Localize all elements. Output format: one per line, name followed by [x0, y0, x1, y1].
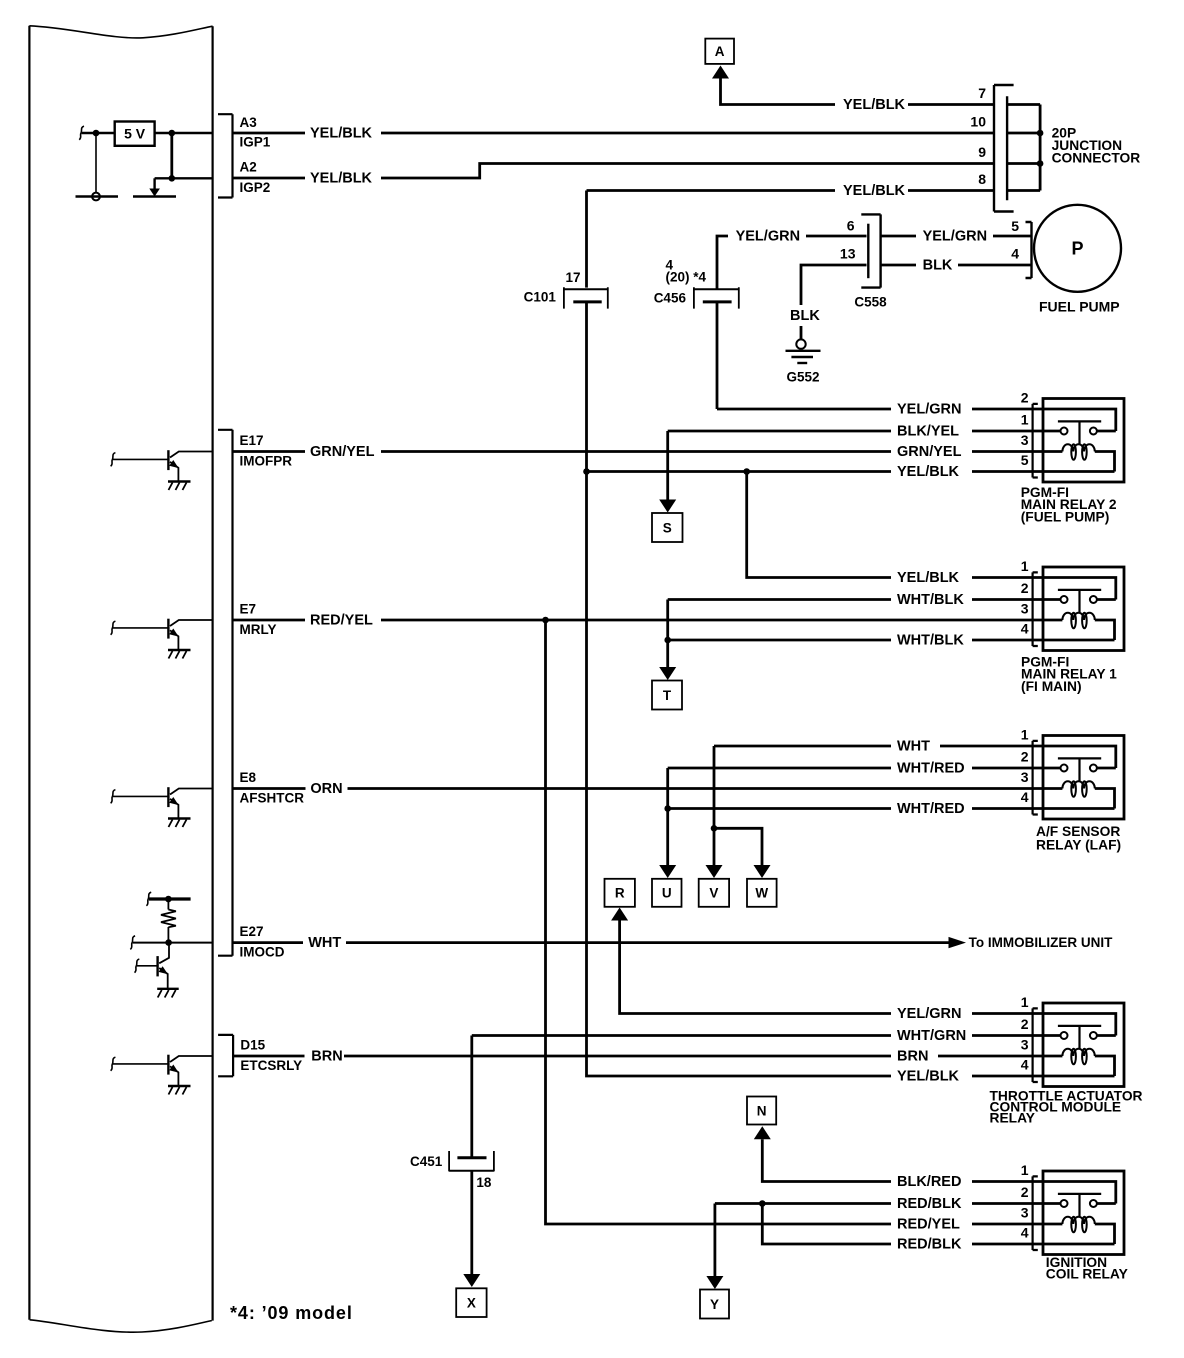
wire WHT/RED A/F relay pin 4: [668, 801, 1033, 817]
svg-text:BRN: BRN: [311, 1048, 342, 1064]
svg-text:T: T: [663, 688, 672, 703]
svg-text:(20) *4: (20) *4: [666, 270, 707, 285]
svg-text:D15: D15: [240, 1038, 265, 1053]
svg-text:5 V: 5 V: [124, 126, 146, 142]
wire WHT/GRN throttle relay pin 2 to C451/X: [472, 1028, 1033, 1158]
wire YEL/BLK to PGM-FI main relay 2 pin 5: [587, 464, 1034, 480]
connector bracket A3/A2: [218, 114, 233, 197]
connector bracket D15: [218, 1035, 233, 1076]
throttle actuator control module relay: [990, 994, 1143, 1126]
PGM-FI main relay 2: [1021, 390, 1124, 525]
svg-text:*4: ’09 model: *4: ’09 model: [230, 1303, 353, 1323]
wire BLK C558 to fuel pump pin 4: [881, 246, 1032, 274]
svg-text:1: 1: [1021, 412, 1029, 428]
svg-text:BRN: BRN: [897, 1048, 928, 1064]
svg-text:4: 4: [1021, 1057, 1029, 1073]
junction node RED/YEL branch: [542, 617, 549, 624]
svg-text:FUEL PUMP: FUEL PUMP: [1039, 299, 1120, 315]
svg-text:YEL/BLK: YEL/BLK: [897, 570, 960, 586]
svg-text:RELAY (LAF): RELAY (LAF): [1036, 838, 1121, 853]
wire resistor to E27 row: [167, 927, 169, 943]
svg-text:COIL RELAY: COIL RELAY: [1046, 1267, 1128, 1282]
pin E17 IMOFPR: [240, 433, 293, 469]
svg-text:C558: C558: [854, 294, 887, 309]
transistor at E8: [111, 787, 213, 827]
svg-text:N: N: [757, 1103, 767, 1118]
svg-text:E8: E8: [240, 770, 257, 785]
svg-text:2: 2: [1021, 1016, 1029, 1032]
svg-text:IGP2: IGP2: [240, 180, 271, 195]
box W: [747, 879, 777, 907]
svg-text:GRN/YEL: GRN/YEL: [310, 444, 375, 460]
wire RED/YEL from E7 to relay 1 pin 3: [233, 612, 1034, 628]
svg-text:2: 2: [1021, 1184, 1029, 1200]
svg-text:(FI MAIN): (FI MAIN): [1021, 679, 1082, 694]
svg-text:To IMMOBILIZER UNIT: To IMMOBILIZER UNIT: [969, 935, 1113, 950]
wire WHT/BLK relay 1 pin 2 to T: [659, 592, 1033, 680]
svg-text:E27: E27: [240, 924, 264, 939]
svg-text:V: V: [709, 886, 718, 901]
wire RED/YEL from E7 bus to ignition coil relay pin 3: [546, 620, 1034, 1232]
pin A3 IGP1: [233, 115, 995, 150]
svg-text:18: 18: [476, 1175, 492, 1190]
A/F sensor relay: [1021, 727, 1124, 853]
svg-text:3: 3: [1021, 1037, 1029, 1053]
transistor at E17: [111, 450, 213, 490]
junction node WHT/RED pin 4: [664, 805, 671, 812]
svg-text:YEL/BLK: YEL/BLK: [310, 125, 373, 141]
pin E7 MRLY: [240, 602, 277, 638]
E27 row internal wire: [130, 936, 212, 950]
pin E27 IMOCD: [240, 924, 285, 960]
wire WHT/RED A/F relay pin 2 to U: [659, 760, 1033, 878]
junction node WHT/BLK pin 4: [664, 637, 671, 644]
svg-text:3: 3: [1021, 1205, 1029, 1221]
box U: [652, 879, 682, 907]
fuel pump P: [1034, 205, 1121, 315]
svg-text:A3: A3: [240, 115, 258, 130]
svg-text:BLK: BLK: [923, 257, 953, 273]
vertical bus from junction pin 8 down to throttle relay pin 4: [587, 191, 892, 1077]
wire BLK to ground G552: [790, 265, 867, 339]
svg-text:YEL/GRN: YEL/GRN: [897, 1006, 961, 1022]
wire YEL/BLK to PGM-FI main relay 1 pin 1: [747, 472, 1033, 586]
svg-text:GRN/YEL: GRN/YEL: [897, 444, 962, 460]
svg-text:RED/YEL: RED/YEL: [897, 1216, 960, 1232]
connector C451: [410, 1151, 494, 1190]
branch to W: [714, 828, 771, 878]
svg-text:1: 1: [1021, 558, 1029, 574]
svg-text:9: 9: [978, 144, 986, 160]
svg-text:13: 13: [840, 246, 856, 262]
20P junction connector: [970, 85, 1140, 212]
wire WHT A/F relay pin 1 to V/W branch: [706, 738, 1034, 878]
svg-text:7: 7: [978, 85, 986, 101]
ground G552: [786, 339, 821, 384]
box A: [705, 39, 734, 64]
svg-text:2: 2: [1021, 390, 1029, 406]
svg-text:IMOCD: IMOCD: [240, 945, 285, 960]
svg-text:YEL/BLK: YEL/BLK: [843, 97, 906, 113]
svg-text:RELAY: RELAY: [990, 1111, 1036, 1126]
svg-text:MRLY: MRLY: [240, 622, 277, 637]
box T: [652, 681, 682, 710]
connector C558: [840, 214, 887, 309]
pin D15 ETCSRLY: [240, 1038, 302, 1074]
svg-text:Y: Y: [710, 1297, 719, 1312]
connector C101: [524, 270, 608, 309]
wire YEL/GRN C456 branch: [717, 228, 867, 409]
svg-text:YEL/GRN: YEL/GRN: [736, 228, 800, 244]
wire YEL/GRN throttle relay pin 1 from R: [611, 908, 1033, 1022]
svg-text:WHT/GRN: WHT/GRN: [897, 1028, 966, 1044]
svg-text:C456: C456: [654, 291, 687, 306]
svg-text:A2: A2: [240, 160, 257, 175]
connector C456: [654, 257, 739, 308]
wire WHT/BLK relay 1 pin 4: [668, 632, 1033, 648]
svg-text:YEL/GRN: YEL/GRN: [897, 401, 961, 417]
wire YEL/GRN C558 to fuel pump pin 5: [881, 218, 1032, 244]
svg-text:BLK/YEL: BLK/YEL: [897, 423, 959, 439]
svg-text:WHT: WHT: [897, 738, 930, 754]
svg-text:1: 1: [1021, 1162, 1029, 1178]
E27 pull-up rail: [146, 892, 190, 909]
svg-text:G552: G552: [787, 370, 820, 385]
transistor at E7: [111, 619, 213, 659]
svg-text:C451: C451: [410, 1154, 443, 1169]
svg-text:4: 4: [1011, 246, 1019, 262]
svg-text:P: P: [1071, 239, 1083, 259]
svg-text:YEL/BLK: YEL/BLK: [310, 170, 373, 186]
pin A2 IGP2: [233, 160, 995, 196]
svg-text:3: 3: [1021, 432, 1029, 448]
box N: [747, 1097, 776, 1125]
svg-text:WHT/BLK: WHT/BLK: [897, 632, 964, 648]
pin E8 AFSHTCR: [240, 770, 305, 806]
svg-text:1: 1: [1021, 994, 1029, 1010]
fuel pump connector bracket: [1026, 222, 1032, 278]
svg-text:4: 4: [1021, 789, 1029, 805]
svg-text:RED/BLK: RED/BLK: [897, 1236, 962, 1252]
transistor at E27: [135, 943, 179, 998]
wire YEL/BLK throttle relay pin 4 (from bus): [897, 1068, 1033, 1084]
wire BLK/RED ignition coil relay pin 1 to N: [754, 1126, 1033, 1190]
svg-text:WHT/RED: WHT/RED: [897, 801, 965, 817]
svg-text:2: 2: [1021, 580, 1029, 596]
svg-text:10: 10: [970, 114, 986, 130]
internal node circle: [76, 133, 119, 200]
svg-text:A: A: [715, 44, 725, 59]
svg-text:6: 6: [847, 218, 855, 234]
transistor at D15: [111, 1055, 213, 1095]
svg-text:2: 2: [1021, 749, 1029, 765]
svg-text:YEL/BLK: YEL/BLK: [897, 464, 960, 480]
box R: [605, 879, 635, 907]
wire junction pin 8: [587, 183, 995, 199]
box Y: [700, 1290, 729, 1319]
svg-text:AFSHTCR: AFSHTCR: [240, 791, 305, 806]
svg-text:RED/BLK: RED/BLK: [897, 1196, 962, 1212]
svg-text:3: 3: [1021, 769, 1029, 785]
svg-text:E7: E7: [240, 602, 257, 617]
svg-text:YEL/BLK: YEL/BLK: [897, 1068, 960, 1084]
svg-text:RED/YEL: RED/YEL: [310, 612, 373, 628]
box S: [652, 513, 683, 542]
svg-text:IGP1: IGP1: [240, 135, 271, 150]
box V: [699, 879, 729, 907]
wire BLK/YEL relay 2 pin 1 to S: [659, 423, 1033, 512]
svg-text:WHT: WHT: [308, 935, 341, 951]
svg-text:WHT/BLK: WHT/BLK: [897, 592, 964, 608]
svg-text:BLK: BLK: [790, 308, 820, 324]
svg-text:ORN: ORN: [310, 781, 342, 797]
5V regulator block: [79, 122, 212, 182]
svg-text:WHT/RED: WHT/RED: [897, 760, 965, 776]
internal ground arrow: [133, 178, 176, 196]
svg-text:5: 5: [1021, 452, 1029, 468]
wire YEL/GRN to relay 2 pin 2: [717, 401, 1033, 417]
svg-text:X: X: [467, 1296, 476, 1311]
PGM-FI main relay 1: [1021, 558, 1124, 694]
box X: [456, 1288, 486, 1317]
svg-text:R: R: [615, 886, 625, 901]
svg-text:U: U: [662, 886, 672, 901]
wire GRN/YEL from E17 to relay 2 pin 3: [233, 444, 1034, 460]
svg-text:(FUEL PUMP): (FUEL PUMP): [1021, 509, 1110, 524]
connector bracket E17/E7/E8/E27: [218, 430, 233, 956]
junction node V/W branch: [711, 825, 718, 832]
svg-text:YEL/BLK: YEL/BLK: [843, 183, 906, 199]
junction node RED/BLK branch: [759, 1200, 766, 1207]
svg-text:C101: C101: [524, 290, 557, 305]
svg-text:5: 5: [1011, 218, 1019, 234]
svg-text:YEL/GRN: YEL/GRN: [923, 228, 987, 244]
wire to A / junction pin 7: [712, 66, 994, 113]
ignition coil relay: [1021, 1162, 1128, 1282]
svg-text:ETCSRLY: ETCSRLY: [240, 1058, 302, 1073]
wire ORN from E8 to A/F relay pin 3: [233, 781, 1034, 797]
ECM box (torn-edge outline): [29, 26, 212, 1332]
svg-text:1: 1: [1021, 727, 1029, 743]
svg-text:E17: E17: [240, 433, 264, 448]
node YEL/BLK dot on bus: [583, 468, 590, 475]
wire BRN from D15 to throttle relay pin 3: [233, 1048, 1033, 1064]
resistor at E27: [161, 910, 176, 928]
junction node to relay 1 branch: [743, 468, 750, 475]
wire RED/BLK ignition coil relay pin 4 branch: [762, 1204, 1033, 1253]
wire C451 to X: [463, 1171, 480, 1287]
svg-text:3: 3: [1021, 601, 1029, 617]
svg-text:IMOFPR: IMOFPR: [240, 454, 293, 469]
svg-text:4: 4: [1021, 621, 1029, 637]
wire RED/BLK ignition coil relay pin 2 to Y: [706, 1196, 1033, 1289]
svg-text:17: 17: [565, 270, 580, 285]
svg-text:BLK/RED: BLK/RED: [897, 1174, 961, 1190]
svg-text:S: S: [663, 521, 672, 536]
svg-text:4: 4: [1021, 1225, 1029, 1241]
svg-text:CONNECTOR: CONNECTOR: [1052, 150, 1141, 165]
wire WHT from E27 to immobilizer unit: [233, 935, 1114, 951]
svg-text:8: 8: [978, 171, 986, 187]
svg-text:W: W: [755, 886, 768, 901]
